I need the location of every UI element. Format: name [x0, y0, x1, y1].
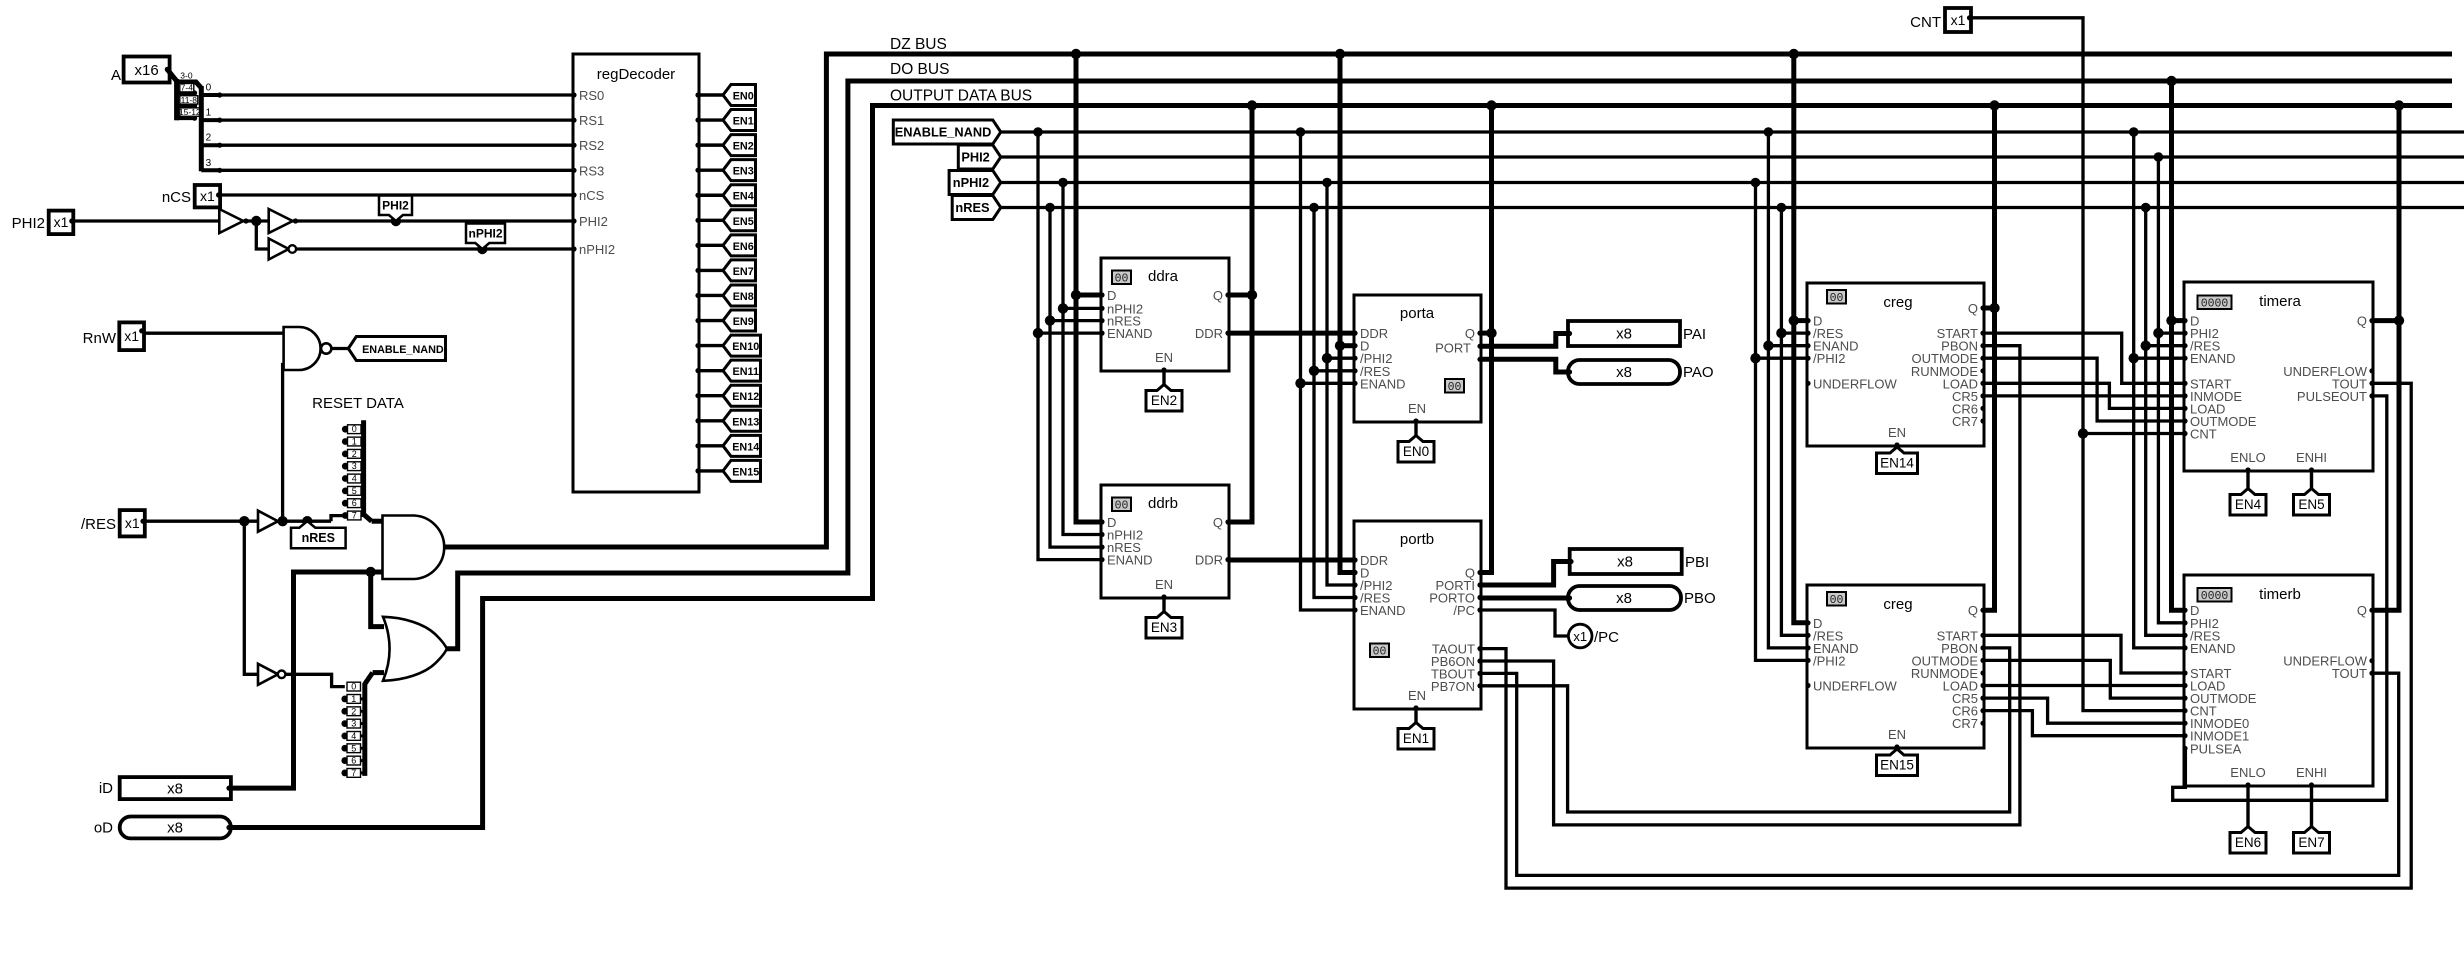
svg-text:0: 0	[206, 83, 212, 94]
svg-text:/PC: /PC	[1453, 603, 1475, 618]
svg-text:EN1: EN1	[1403, 731, 1429, 746]
svg-text:EN4: EN4	[2235, 497, 2262, 512]
register block ddra	[1101, 258, 1229, 371]
svg-text:Q: Q	[1968, 603, 1978, 618]
svg-text:porta: porta	[1400, 305, 1435, 322]
wire nRES local	[278, 520, 331, 523]
svg-text:Q: Q	[2357, 314, 2367, 329]
wire nRES net	[1001, 206, 2464, 209]
svg-text:EN2: EN2	[1151, 393, 1177, 408]
svg-text:x1: x1	[1951, 12, 1966, 28]
svg-text:6: 6	[351, 756, 356, 766]
svg-text:A: A	[111, 67, 121, 84]
wire nPHI2 net	[1001, 181, 2464, 184]
svg-text:EN: EN	[1888, 727, 1906, 742]
svg-text:PORT: PORT	[1435, 341, 1471, 356]
wire RS2	[220, 144, 573, 147]
svg-text:DDR: DDR	[1195, 326, 1223, 341]
wire ENABLE_NAND to porta/portb	[1301, 132, 1355, 610]
svg-text:0000: 0000	[2201, 590, 2229, 603]
wire nCS	[220, 193, 573, 196]
wire EN2	[699, 143, 724, 146]
svg-text:nCS: nCS	[162, 189, 191, 206]
wire creg2 START to timerb START	[1984, 635, 2184, 673]
wire inverter out to joiner bit0	[285, 674, 344, 686]
wire iD to gates	[231, 572, 383, 788]
svg-text:PHI2: PHI2	[579, 214, 608, 229]
svg-text:4: 4	[352, 474, 357, 484]
wire CNT connector to timer CNT pins	[1971, 18, 2184, 711]
wire ENABLE_NAND to ddra/ddrb	[1038, 132, 1101, 560]
svg-text:EN0: EN0	[1403, 444, 1429, 459]
wire EN0	[699, 93, 724, 96]
wire PHI2 to timer PHI2 pins	[2158, 157, 2184, 623]
svg-text:nPHI2: nPHI2	[468, 227, 502, 241]
wire DO bus (OR output to second bus)	[444, 81, 2452, 649]
svg-text:oD: oD	[94, 820, 113, 837]
svg-text:EN3: EN3	[733, 166, 754, 178]
wire NAND output	[332, 347, 349, 350]
svg-text:PAI: PAI	[1683, 326, 1706, 343]
svg-text:EN1: EN1	[733, 116, 754, 128]
svg-text:00: 00	[1830, 594, 1844, 607]
wire portb PB7ON to creg2 PBON	[1481, 648, 2010, 812]
wire nPHI2 to creg /PHI2 pins	[1756, 183, 1808, 661]
wire EN4	[699, 194, 724, 197]
net label ENABLE_NAND source tag	[348, 337, 445, 361]
wire buffer junction	[243, 219, 268, 222]
wire splitter to AND input	[372, 519, 383, 524]
wire portb TAOUT to timera TOUT	[1481, 383, 2411, 888]
tag EN14	[1877, 447, 1918, 474]
svg-text:/PHI2: /PHI2	[1813, 653, 1846, 668]
tag EN10 output	[723, 335, 761, 356]
tag EN1 output	[723, 110, 756, 131]
tag EN6	[2230, 827, 2266, 854]
svg-text:nCS: nCS	[579, 188, 605, 203]
svg-text:PHI2: PHI2	[961, 150, 989, 165]
wire iD branch to OR	[371, 572, 384, 627]
svg-text:0000: 0000	[2201, 298, 2229, 311]
svg-text:00: 00	[1115, 500, 1129, 513]
svg-text:x1: x1	[54, 214, 69, 230]
inverter nPHI2	[269, 239, 289, 260]
svg-text:2: 2	[352, 449, 357, 459]
svg-text:ENLO: ENLO	[2230, 765, 2265, 780]
svg-text:1: 1	[351, 694, 356, 704]
wire timerb ENHI stub	[2310, 786, 2313, 827]
svg-text:EN8: EN8	[733, 291, 754, 303]
svg-text:Q: Q	[1213, 515, 1223, 530]
svg-text:EN: EN	[1155, 577, 1173, 592]
wire portb PORTI to PBI	[1481, 562, 1570, 586]
svg-text:EN15: EN15	[1880, 758, 1914, 773]
wire joiner to OR input	[373, 670, 384, 675]
svg-text:EN11: EN11	[733, 366, 759, 378]
wire porta PORT to PAO	[1481, 359, 1568, 372]
tag EN2	[1146, 385, 1182, 412]
buffer PHI2 second	[269, 209, 293, 233]
wire creg2 EN stub	[1895, 748, 1898, 750]
tag EN11 output	[723, 360, 761, 381]
tag EN0	[1398, 436, 1434, 463]
wire /RES down to inverter	[244, 521, 258, 674]
wire creg2 OUTMODE to timerb OUTMODE	[1984, 660, 2184, 698]
svg-text:x16: x16	[135, 62, 159, 79]
register block creg	[1807, 283, 1984, 446]
wire nRES to ddra/ddrb	[1050, 208, 1101, 548]
wire PHI2 input to buffer	[73, 219, 219, 222]
wire timera ENHI stub	[2310, 471, 2313, 489]
wire timer Q to output bus	[2373, 106, 2399, 611]
svg-text:6: 6	[352, 498, 357, 508]
wire DO bus to timer D pins	[2172, 81, 2185, 610]
net label nPHI2 on wire	[477, 244, 487, 254]
svg-text:ENLO: ENLO	[2230, 450, 2265, 465]
svg-text:creg: creg	[1883, 596, 1912, 613]
svg-text:EN5: EN5	[733, 216, 754, 228]
net label ENABLE_NAND	[893, 120, 1001, 144]
wire porta/portb Q to output bus	[1481, 106, 1492, 573]
wire creg EN stub	[1895, 446, 1898, 448]
svg-text:x8: x8	[167, 820, 183, 837]
wire EN9	[699, 319, 724, 322]
svg-text:ENAND: ENAND	[2190, 641, 2236, 656]
wire portb /PC to x1 connector	[1481, 610, 1568, 636]
wire EN8	[699, 294, 724, 297]
svg-text:x8: x8	[1616, 326, 1632, 343]
buffer nRES	[258, 511, 278, 532]
wire creg2 LOAD to timerb LOAD	[1984, 684, 2184, 687]
wire EN10	[699, 344, 724, 347]
svg-text:DZ BUS: DZ BUS	[890, 36, 947, 53]
tag EN15 output	[723, 460, 761, 481]
tag EN4	[2230, 489, 2266, 516]
svg-text:EN: EN	[1408, 401, 1426, 416]
svg-text:Q: Q	[1968, 301, 1978, 316]
wire nRES to joiner bit7	[331, 516, 345, 522]
svg-text:CR7: CR7	[1952, 414, 1978, 429]
and gate reset-data	[383, 516, 445, 580]
tag EN5	[2294, 489, 2330, 516]
wire A to splitter	[167, 69, 176, 81]
net label nRES	[952, 196, 1001, 220]
wire RS0	[220, 93, 573, 96]
svg-text:11-8: 11-8	[181, 95, 198, 105]
wire creg Q to output bus	[1984, 106, 1995, 611]
wire RnW to NAND	[144, 332, 284, 335]
wire nPHI2 to regDecoder	[296, 247, 573, 250]
svg-text:EN5: EN5	[2298, 497, 2324, 512]
wire EN13	[699, 419, 724, 422]
svg-text:/PC: /PC	[1594, 629, 1619, 646]
svg-text:0: 0	[352, 424, 357, 434]
tag EN7 output	[723, 260, 756, 281]
wire ENABLE_NAND net	[1001, 130, 2464, 133]
wire porta PORT to PAI	[1481, 334, 1568, 347]
wire ENABLE_NAND to creg ENAND pins	[1768, 132, 1807, 648]
tag EN14 output	[723, 435, 761, 456]
svg-text:CNT: CNT	[1910, 14, 1941, 31]
svg-text:1: 1	[352, 437, 357, 447]
inverter reset-id	[258, 664, 278, 685]
tag EN8 output	[723, 285, 756, 306]
svg-text:PBO: PBO	[1684, 590, 1716, 607]
tag EN12 output	[723, 385, 761, 406]
svg-text:3-0: 3-0	[180, 71, 193, 81]
tag EN13 output	[723, 410, 761, 431]
register block timerb	[2184, 575, 2373, 786]
svg-text:x1: x1	[1573, 629, 1587, 644]
svg-text:Q: Q	[1465, 326, 1475, 341]
wire OUTPUT DATA bus (oD to third bus)	[231, 106, 2452, 828]
svg-text:portb: portb	[1400, 531, 1434, 548]
svg-text:EN: EN	[1155, 350, 1173, 365]
tag EN1	[1398, 723, 1434, 750]
tag EN6 output	[723, 235, 756, 256]
svg-text:ENAND: ENAND	[1107, 326, 1153, 341]
net label nRES on wire	[302, 516, 312, 526]
bus splitter A nibble 3-0	[199, 86, 204, 171]
svg-text:ENHI: ENHI	[2296, 450, 2327, 465]
wire DZ to porta/portb D	[1340, 54, 1354, 573]
tag EN4 output	[723, 185, 756, 206]
wire timera ENLO stub	[2246, 471, 2249, 489]
net label PHI2	[958, 145, 1001, 169]
wire porta EN stub	[1414, 422, 1417, 436]
wire DZ to ddra/ddrb D	[1076, 54, 1101, 522]
svg-text:00: 00	[1373, 646, 1387, 659]
nand gate ENABLE_NAND	[284, 327, 321, 370]
svg-text:nPHI2: nPHI2	[579, 242, 615, 257]
wire portb PORTO to PBO	[1481, 596, 1568, 601]
register block porta	[1354, 295, 1481, 422]
tag EN3 output	[723, 160, 756, 181]
svg-text:ENAND: ENAND	[1360, 376, 1406, 391]
bus joiner RESET DATA	[361, 420, 366, 516]
svg-text:ENABLE_NAND: ENABLE_NAND	[362, 344, 444, 356]
svg-text:PHI2: PHI2	[12, 215, 45, 232]
wire EN1	[699, 118, 724, 121]
svg-text:x8: x8	[1616, 364, 1632, 381]
wire creg OUTMODE to timera OUTMODE	[1984, 358, 2184, 421]
wire EN14	[699, 444, 724, 447]
tag EN7	[2294, 827, 2330, 854]
svg-text:15-12: 15-12	[179, 107, 201, 117]
svg-text:RnW: RnW	[83, 330, 117, 347]
wire PHI2 to regDecoder	[293, 219, 573, 222]
svg-text:EN: EN	[1888, 425, 1906, 440]
buffer PHI2 first	[219, 209, 243, 233]
svg-text:3: 3	[206, 158, 212, 169]
svg-text:creg: creg	[1883, 294, 1912, 311]
svg-text:EN13: EN13	[732, 416, 759, 428]
tag EN2 output	[723, 135, 756, 156]
wire PHI2 net	[1001, 155, 2464, 158]
svg-text:CR7: CR7	[1952, 716, 1978, 731]
bus splitter A 16-bit	[174, 79, 179, 120]
svg-text:x8: x8	[1616, 590, 1632, 607]
wire RS3	[220, 169, 573, 172]
svg-text:EN2: EN2	[733, 141, 754, 153]
wire portb PB6ON to creg PBON	[1481, 346, 2020, 825]
svg-text:RS0: RS0	[579, 88, 604, 103]
wire nPHI2 to porta/portb	[1327, 183, 1354, 586]
wire ddra/ddrb Q to output bus	[1229, 106, 1252, 523]
tag EN0 output	[723, 85, 756, 106]
register block timera	[2184, 282, 2373, 471]
svg-text:00: 00	[1115, 273, 1129, 286]
svg-text:RS2: RS2	[579, 138, 604, 153]
wire ddra DDR to porta DDR	[1229, 331, 1354, 336]
svg-text:EN4: EN4	[733, 191, 754, 203]
svg-text:1: 1	[206, 108, 212, 119]
wire ddrb EN stub	[1162, 598, 1165, 612]
register block ddrb	[1101, 485, 1229, 598]
svg-text:TOUT: TOUT	[2332, 666, 2367, 681]
bus joiner reset-OR input	[362, 683, 367, 776]
input connector PBI	[1570, 549, 1682, 574]
output connector PAO	[1568, 360, 1680, 384]
wire nPHI2 to ddra/ddrb	[1063, 183, 1101, 535]
svg-text:CNT: CNT	[2190, 427, 2217, 442]
svg-text:PHI2: PHI2	[382, 199, 409, 213]
or gate reset-id	[383, 617, 447, 681]
wire creg2 CR6 to timerb INMODE1	[1984, 711, 2184, 736]
svg-text:x1: x1	[125, 515, 140, 531]
register block creg2	[1807, 585, 1984, 748]
wire DZ to creg D pins	[1794, 54, 1807, 623]
net label nPHI2	[949, 171, 1001, 195]
input connector PAI	[1568, 321, 1680, 346]
svg-text:/RES: /RES	[81, 516, 116, 533]
tag EN15	[1877, 749, 1918, 776]
svg-text:EN9: EN9	[733, 316, 754, 328]
svg-text:PAO: PAO	[1683, 364, 1714, 381]
svg-text:Q: Q	[1213, 288, 1223, 303]
wire creg START to timera START	[1984, 333, 2184, 383]
wire portb TBOUT to timerb TOUT	[1481, 673, 2399, 875]
svg-text:UNDERFLOW: UNDERFLOW	[1813, 679, 1898, 694]
svg-text:/PHI2: /PHI2	[1813, 351, 1846, 366]
wire nRES to porta/portb	[1314, 208, 1354, 598]
svg-text:ddra: ddra	[1148, 268, 1179, 285]
wire RS1	[220, 118, 573, 121]
svg-text:EN15: EN15	[732, 466, 759, 478]
wire creg LOAD to timera LOAD	[1984, 383, 2184, 408]
svg-text:PULSEA: PULSEA	[2190, 741, 2242, 756]
wire ddrb DDR to portb DDR	[1229, 558, 1354, 563]
wire nRES to NAND input	[283, 365, 284, 522]
svg-text:ENAND: ENAND	[1107, 553, 1153, 568]
svg-text:iD: iD	[99, 780, 113, 797]
output connector /PC	[1568, 624, 1592, 648]
svg-text:7-4: 7-4	[181, 83, 194, 93]
svg-text:2: 2	[206, 133, 212, 144]
svg-text:timerb: timerb	[2259, 586, 2301, 603]
wire EN3	[699, 168, 724, 171]
output connector PBO	[1568, 586, 1681, 610]
svg-text:RESET DATA: RESET DATA	[312, 395, 404, 412]
decoder block regDecoder	[573, 54, 699, 492]
svg-text:DO BUS: DO BUS	[890, 61, 949, 78]
wire portb EN stub	[1414, 709, 1417, 723]
wire DZ bus (AND output to top bus)	[445, 54, 2452, 547]
svg-text:ENHI: ENHI	[2296, 765, 2327, 780]
svg-text:EN6: EN6	[733, 241, 754, 253]
svg-text:ENABLE_NAND: ENABLE_NAND	[895, 125, 992, 140]
wire EN6	[699, 244, 724, 247]
svg-text:EN10: EN10	[732, 341, 759, 353]
svg-text:nRES: nRES	[955, 200, 990, 215]
svg-text:ENAND: ENAND	[1360, 603, 1406, 618]
svg-text:5: 5	[352, 486, 357, 496]
wire EN7	[699, 269, 724, 272]
net label PHI2 on wire	[391, 216, 401, 226]
svg-text:EN6: EN6	[2235, 835, 2261, 850]
svg-text:timera: timera	[2259, 293, 2301, 310]
svg-text:PB7ON: PB7ON	[1431, 679, 1475, 694]
svg-text:x8: x8	[1617, 554, 1633, 571]
svg-text:nPHI2: nPHI2	[953, 175, 989, 190]
svg-text:EN12: EN12	[732, 391, 759, 403]
svg-text:x1: x1	[200, 188, 215, 204]
wire ENABLE_NAND to timer ENAND pins	[2134, 132, 2184, 648]
svg-text:0: 0	[351, 682, 356, 692]
svg-text:7: 7	[352, 511, 357, 521]
wire EN15	[699, 469, 724, 472]
wire timera PULSEOUT to timerb PULSEA	[2173, 396, 2387, 800]
svg-text:nRES: nRES	[302, 531, 335, 545]
svg-text:Q: Q	[2357, 603, 2367, 618]
svg-text:OUTPUT DATA BUS: OUTPUT DATA BUS	[890, 88, 1032, 105]
register block portb	[1354, 521, 1481, 709]
tag EN3	[1146, 612, 1182, 639]
wire creg2 CR5 to timerb INMODE0	[1984, 698, 2184, 723]
wire timerb ENLO stub	[2246, 786, 2249, 827]
wire nRES to creg /RES pins	[1781, 208, 1807, 636]
svg-text:DDR: DDR	[1195, 553, 1223, 568]
wire nRES to timer /RES pins	[2146, 208, 2184, 636]
svg-text:RS1: RS1	[579, 113, 604, 128]
svg-text:3: 3	[351, 719, 356, 729]
wire EN5	[699, 219, 724, 222]
tag EN9 output	[723, 310, 756, 331]
svg-text:ENAND: ENAND	[2190, 351, 2236, 366]
svg-text:00: 00	[1448, 381, 1462, 394]
svg-text:EN7: EN7	[733, 266, 754, 278]
svg-text:5: 5	[351, 743, 356, 753]
svg-text:x1: x1	[124, 328, 139, 344]
svg-text:RS3: RS3	[579, 163, 604, 178]
svg-text:2: 2	[351, 706, 356, 716]
svg-text:EN3: EN3	[1151, 620, 1177, 635]
svg-text:x8: x8	[167, 781, 183, 798]
svg-text:regDecoder: regDecoder	[597, 66, 675, 83]
svg-text:EN14: EN14	[732, 441, 759, 453]
wire creg CR5 to timera INMODE	[1984, 394, 2184, 397]
wire EN12	[699, 394, 724, 397]
wire ddra EN stub	[1162, 371, 1165, 385]
tag EN5 output	[723, 210, 756, 231]
svg-text:EN: EN	[1408, 688, 1426, 703]
svg-text:7: 7	[351, 768, 356, 778]
wire /RES to buffer	[145, 520, 258, 523]
svg-text:00: 00	[1830, 292, 1844, 305]
svg-text:PULSEOUT: PULSEOUT	[2297, 389, 2367, 404]
svg-text:4: 4	[351, 731, 356, 741]
svg-text:3: 3	[352, 461, 357, 471]
